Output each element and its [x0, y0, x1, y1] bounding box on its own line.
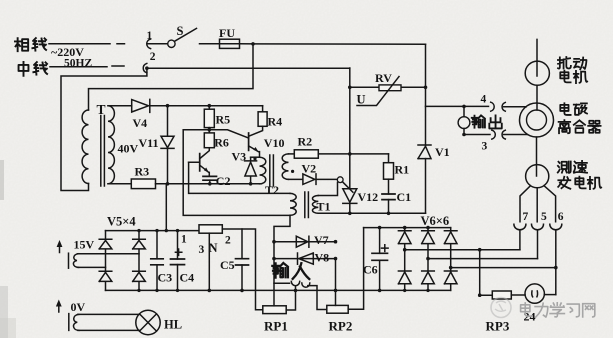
- node V12 anode R2 junction: [348, 152, 352, 156]
- svg-text:4: 4: [481, 94, 487, 106]
- bridge V6 col3: [444, 228, 457, 291]
- svg-text:FU: FU: [219, 26, 235, 40]
- svg-text:2: 2: [225, 235, 231, 247]
- wire lamp b: [78, 329, 140, 331]
- wire T1 right top to gate: [318, 182, 337, 195]
- wire top bus to right column: [240, 43, 426, 45]
- wire C6 top bus: [364, 226, 451, 230]
- meter M: [525, 284, 544, 303]
- svg-text:T1: T1: [317, 200, 331, 214]
- node R5 R6 junction: [208, 128, 212, 133]
- svg-text:T2: T2: [265, 183, 279, 197]
- svg-text:R6: R6: [214, 136, 229, 150]
- label V6x6: [421, 214, 450, 228]
- node V11 bottom: [166, 182, 170, 186]
- wire phase drop to y88: [89, 44, 254, 110]
- transformer T core: [97, 102, 106, 186]
- T2 polarity dots: [253, 157, 294, 173]
- transformer T secondary winding 40V: [108, 106, 139, 184]
- resistor R6: [204, 133, 229, 150]
- svg-text:S: S: [177, 24, 184, 38]
- svg-text:1: 1: [181, 234, 187, 246]
- fuse FU: [219, 26, 240, 49]
- diode V7: [272, 233, 337, 247]
- zener diode V11: [139, 106, 175, 184]
- thyristor V12: [343, 68, 378, 215]
- node V11 top: [166, 104, 170, 108]
- wire link to emitter bus: [165, 184, 167, 231]
- diode V8: [272, 251, 337, 265]
- svg-text:V10: V10: [264, 136, 285, 150]
- svg-text:V12: V12: [358, 190, 379, 204]
- label 24: [524, 310, 536, 324]
- wire phase b: [428, 258, 538, 260]
- wire switch to FU: [200, 43, 220, 45]
- svg-text:RP1: RP1: [264, 319, 288, 334]
- capacitor C6: [363, 228, 388, 293]
- svg-text:7: 7: [523, 211, 529, 223]
- wire N output: [222, 229, 262, 310]
- label 拖动电机: [558, 57, 587, 83]
- wire RP2 wiper: [334, 259, 338, 306]
- svg-text:V3: V3: [232, 150, 247, 164]
- svg-text:40V: 40V: [118, 142, 139, 156]
- bridge V5 col2: [133, 231, 146, 291]
- wire 15V b: [78, 266, 106, 268]
- wire secondary top to V4: [108, 105, 132, 107]
- wire output terminal 4: [426, 105, 489, 109]
- wire input branch: [274, 282, 290, 284]
- svg-text:V7: V7: [314, 233, 329, 247]
- wire base feed V10: [209, 130, 248, 138]
- svg-text:C4: C4: [180, 271, 195, 285]
- label 测速发电机: [558, 161, 601, 189]
- tacho generator: [526, 165, 549, 188]
- transistor V10: [249, 126, 285, 157]
- connector 3 pair: [482, 130, 506, 152]
- connector 1 socket: [147, 30, 153, 49]
- svg-text:RP2: RP2: [329, 319, 353, 334]
- svg-text:HL: HL: [164, 318, 182, 332]
- label V5x4: [107, 215, 136, 229]
- varistor RV: [350, 71, 426, 107]
- label 电磁离合器: [559, 103, 601, 133]
- svg-text:6: 6: [558, 211, 564, 223]
- pulse transformer T2 primary: [260, 157, 266, 184]
- svg-text:C6: C6: [363, 263, 378, 277]
- bridge V5 col1: [99, 231, 112, 291]
- wire R2 to R1 top: [318, 153, 388, 155]
- svg-text:V5×4: V5×4: [107, 215, 136, 229]
- wire RP2 right riser: [348, 228, 363, 310]
- svg-text:V2: V2: [302, 162, 317, 176]
- label 相线 (phase line): [15, 38, 46, 51]
- diode V4: [132, 99, 150, 130]
- svg-text:15V: 15V: [74, 238, 95, 252]
- wire phase line L: [49, 43, 125, 45]
- svg-text:R3: R3: [135, 165, 150, 179]
- wire 40V bottom to R3: [108, 183, 131, 185]
- resistor R1: [384, 154, 410, 179]
- connector 15V plug: [69, 253, 79, 268]
- svg-text:50HZ: 50HZ: [64, 58, 92, 70]
- wire to clutch upper: [504, 106, 527, 108]
- svg-text:1: 1: [147, 30, 153, 42]
- svg-text:C3: C3: [158, 271, 173, 285]
- wire motor to clutch: [536, 85, 538, 110]
- gate node circle: [337, 177, 353, 192]
- wire RP1 right riser: [286, 286, 297, 310]
- potentiometer RP2: [327, 305, 353, 333]
- connector cup 6: [550, 224, 562, 294]
- svg-text:3: 3: [199, 244, 205, 256]
- T2 secondary winding: [282, 154, 288, 180]
- wire 15V a: [78, 253, 140, 255]
- wire V3 to T2 top: [251, 156, 260, 158]
- svg-text:C1: C1: [397, 190, 412, 204]
- resistor R3: [131, 165, 155, 189]
- wire phase a: [405, 248, 520, 252]
- arrow from transformer 15V: [57, 238, 95, 253]
- capacitor C3: [151, 231, 172, 291]
- wire meter to phase c: [544, 294, 555, 296]
- wire clutch to tacho: [536, 137, 538, 176]
- svg-text:R4: R4: [268, 115, 283, 129]
- tacho pin 6: [544, 186, 564, 223]
- wire RP1 wiper: [273, 242, 275, 306]
- svg-text:RV: RV: [375, 71, 392, 85]
- T2 core: [265, 155, 279, 197]
- transformer T primary winding: [82, 110, 88, 183]
- wire neutral L: [50, 65, 124, 68]
- wire N ground pin: [208, 233, 212, 292]
- connector cup 7: [514, 224, 526, 250]
- wire T1 left bottom jog to V7 bus: [274, 215, 290, 241]
- capacitor C5: [220, 229, 249, 292]
- diode V3: [232, 150, 257, 186]
- node R5 top: [208, 104, 212, 108]
- svg-text:V11: V11: [139, 136, 159, 150]
- wire neutral to x350: [147, 67, 350, 69]
- tacho pin 7: [520, 186, 531, 223]
- svg-text:R1: R1: [395, 163, 410, 177]
- wire top dc bus: [106, 229, 200, 232]
- connector 0V plug: [69, 314, 79, 331]
- node connector 2: [145, 66, 149, 70]
- svg-text:2: 2: [150, 51, 156, 63]
- connector 2 socket: [143, 51, 156, 73]
- electromagnetic clutch: [520, 103, 554, 137]
- svg-text:C2: C2: [216, 174, 231, 188]
- wire lamp a: [78, 313, 140, 315]
- wire base to T1 top: [189, 162, 290, 193]
- capacitor C1: [382, 179, 411, 215]
- svg-text:U: U: [357, 93, 366, 107]
- lamp HL: [136, 310, 182, 334]
- resistor R2: [294, 135, 318, 159]
- svg-text:T: T: [97, 102, 106, 117]
- wire to switch: [148, 43, 168, 45]
- T1 right winding: [312, 196, 318, 214]
- node FU junction: [251, 42, 255, 46]
- node RV left: [348, 86, 352, 90]
- wire top bus V4 to R4: [150, 105, 263, 107]
- regulator N: [181, 225, 231, 256]
- svg-text:V8: V8: [315, 251, 330, 265]
- pulse transformer T1 left winding: [290, 193, 296, 215]
- connector input cup b: [302, 283, 327, 310]
- watermark 电力学习网: [521, 303, 595, 317]
- bridge V6 col2: [422, 228, 435, 292]
- svg-text:V1: V1: [435, 145, 450, 159]
- capacitor C2: [203, 174, 230, 188]
- resistor R4: [258, 106, 282, 129]
- T1 core: [305, 192, 331, 218]
- arrow from transformer 0V: [56, 300, 86, 315]
- switch S: [168, 24, 197, 48]
- wire T2 to R2: [289, 153, 295, 155]
- connector input cup a: [291, 281, 299, 285]
- svg-text:3: 3: [482, 141, 488, 153]
- label 输出: [472, 115, 502, 128]
- potentiometer RP3: [486, 291, 512, 334]
- wire neutral branch to transformer: [61, 68, 147, 190]
- label ~220V 50HZ: [51, 45, 92, 70]
- transistor V9: [189, 148, 210, 177]
- wire to clutch lower: [504, 134, 528, 136]
- bridge V6 col1: [398, 228, 411, 292]
- svg-text:R5: R5: [216, 113, 231, 127]
- potentiometer RP1: [263, 306, 288, 334]
- tacho pin 5: [537, 188, 547, 223]
- svg-text:V4: V4: [133, 116, 148, 130]
- wire feedback to T1 bottom: [183, 130, 290, 216]
- label 输入: [272, 263, 309, 279]
- svg-text:5: 5: [541, 211, 547, 223]
- wire emitter bus y184: [156, 183, 260, 185]
- svg-text:C5: C5: [220, 258, 235, 272]
- wire RP3 to meter: [511, 294, 525, 296]
- drag motor M1: [525, 39, 549, 85]
- diode V1: [418, 145, 450, 159]
- output common terminal circle: [458, 106, 470, 136]
- connector cup 5: [532, 224, 544, 258]
- watermark logo: [491, 298, 511, 318]
- wire right column: [425, 44, 427, 213]
- wire ground bus: [106, 289, 451, 292]
- capacitor C4: [171, 231, 195, 291]
- diode V2: [289, 162, 338, 185]
- svg-text:V6×6: V6×6: [421, 214, 450, 228]
- connector 4 pair: [481, 94, 506, 112]
- scan smudge left edge: [0, 160, 16, 338]
- node RV right: [424, 86, 428, 90]
- svg-text:0V: 0V: [71, 300, 86, 314]
- label 中线 (neutral line): [19, 62, 48, 76]
- wire T1 right bottom to C1 bus: [318, 212, 425, 214]
- wire output terminal 3: [464, 134, 490, 136]
- svg-text:RP3: RP3: [486, 319, 510, 334]
- wire phase c: [451, 267, 556, 269]
- resistor R5: [204, 106, 230, 128]
- svg-text:R2: R2: [298, 135, 313, 149]
- wire to RP3 row: [478, 250, 492, 297]
